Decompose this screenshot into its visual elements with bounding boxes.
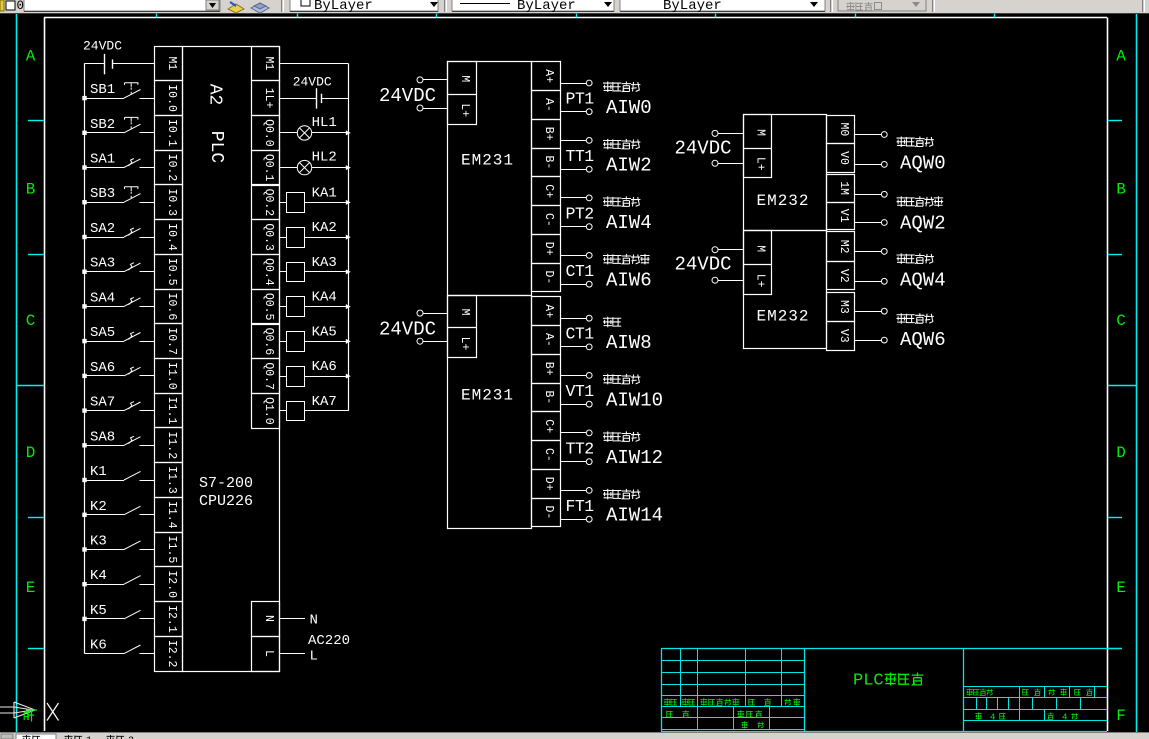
wire L stub xyxy=(279,653,305,655)
left supply rail wire xyxy=(84,63,86,653)
svg-text:L+: L+ xyxy=(458,337,471,351)
lamp HL2 xyxy=(279,160,348,174)
EM232 U5 L+ supply wire and terminal circle xyxy=(712,277,743,283)
svg-text:K4: K4 xyxy=(90,568,107,584)
svg-text:I0.5: I0.5 xyxy=(165,258,178,286)
svg-text:EM231: EM231 xyxy=(461,386,514,404)
svg-text:I0.0: I0.0 xyxy=(165,84,178,112)
title block main title PLC接线图 xyxy=(853,672,923,691)
svg-text:KA2: KA2 xyxy=(312,220,337,236)
chinese label for AIW4 xyxy=(603,196,612,207)
junction dot KA6 rail xyxy=(346,374,351,379)
EM231 U3 wire A+ to sensor xyxy=(560,315,592,321)
svg-text:C+: C+ xyxy=(542,184,555,198)
svg-text:KA6: KA6 xyxy=(312,359,337,375)
EM231 U3 wire A- to sensor xyxy=(560,344,592,350)
svg-text:B: B xyxy=(1116,181,1126,199)
EM231 U2 terminal D- cell xyxy=(532,264,561,292)
svg-text:M: M xyxy=(458,309,471,316)
svg-text:CT1: CT1 xyxy=(566,325,595,344)
EM231 U3 terminal D- cell xyxy=(532,499,561,527)
svg-text:E: E xyxy=(1116,579,1126,597)
EM231 U2 wire D- to sensor xyxy=(560,281,592,287)
svg-text:B-: B- xyxy=(542,390,555,404)
svg-text:A2: A2 xyxy=(205,84,225,106)
chinese label for AIW12 xyxy=(603,431,612,442)
svg-text:SA4: SA4 xyxy=(90,290,115,306)
EM232 U5 terminal M3 cell xyxy=(827,293,855,322)
switch SA7 xyxy=(85,402,155,411)
svg-text:M2: M2 xyxy=(837,240,850,254)
svg-text:PT1: PT1 xyxy=(566,89,595,108)
junction dot xyxy=(82,374,86,378)
EM231 U3 terminal C- cell xyxy=(532,441,561,470)
svg-text:B: B xyxy=(26,181,36,199)
title block row 设计 标准化 xyxy=(667,710,762,718)
svg-text:I0.7: I0.7 xyxy=(165,327,178,355)
EM232 U5 output wire 0 xyxy=(855,249,888,255)
svg-text:AIW2: AIW2 xyxy=(606,154,652,176)
svg-text:24VDC: 24VDC xyxy=(83,39,122,54)
svg-text:AIW4: AIW4 xyxy=(606,212,652,234)
terminal I1.3 PLC input cell xyxy=(155,463,183,498)
svg-text:SA6: SA6 xyxy=(90,360,115,376)
junction dot xyxy=(82,270,86,274)
svg-text:K3: K3 xyxy=(90,534,107,550)
relay coil KA3 xyxy=(279,263,348,282)
EM231 U2 M supply wire and terminal circle xyxy=(417,77,448,83)
EM231 U3 terminal A- cell xyxy=(532,326,561,355)
svg-text:SA3: SA3 xyxy=(90,256,115,272)
EM231 U3 wire C- to sensor xyxy=(560,459,592,465)
toolbar separator xyxy=(830,0,832,12)
svg-text:L+: L+ xyxy=(753,157,766,171)
EM232 U4 output wire 3 xyxy=(855,220,888,226)
EM231 U2 wire C- to sensor xyxy=(560,224,592,230)
svg-text:SA5: SA5 xyxy=(90,325,115,341)
terminal I1.2 PLC input cell xyxy=(155,428,183,463)
wire N stub xyxy=(279,618,305,620)
junction dot xyxy=(82,617,86,621)
chinese label for AQW4 xyxy=(897,253,906,264)
EM231 U2 terminal C+ cell xyxy=(532,177,561,206)
EM231 U3 wire D+ to sensor xyxy=(560,488,592,494)
svg-text:I1.2: I1.2 xyxy=(165,432,178,460)
terminal I2.1 PLC input cell xyxy=(155,602,183,637)
terminal I2.2 PLC input cell xyxy=(155,637,183,672)
svg-text:CPU226: CPU226 xyxy=(199,493,253,510)
EM231 U2 terminal A+ cell xyxy=(532,62,561,91)
title block right table lines xyxy=(963,687,1107,721)
svg-text:V3: V3 xyxy=(837,329,850,343)
EM232 U5 output wire 1 xyxy=(855,278,888,284)
relay coil KA7 xyxy=(279,402,348,421)
junction dot xyxy=(82,200,86,204)
svg-text:E: E xyxy=(26,579,36,597)
terminal N PLC cell xyxy=(252,602,280,637)
svg-text:L: L xyxy=(310,649,318,665)
svg-text:V1: V1 xyxy=(837,209,850,223)
terminal Q0.7 PLC output cell xyxy=(252,359,280,394)
svg-text:A-: A- xyxy=(542,98,555,112)
svg-text:HL1: HL1 xyxy=(312,115,337,131)
svg-text:C+: C+ xyxy=(542,419,555,433)
top zone ticks cyan xyxy=(157,14,995,18)
svg-text:B+: B+ xyxy=(542,362,555,376)
EM231 U3 terminal A+ cell xyxy=(532,297,561,326)
svg-text:I0.3: I0.3 xyxy=(165,188,178,216)
svg-text:M: M xyxy=(753,129,766,136)
svg-text:Q1.0: Q1.0 xyxy=(262,397,275,425)
wire M1 to rail xyxy=(279,63,348,65)
EM231 U2 wire D+ to sensor xyxy=(560,253,592,259)
relay coil KA1 xyxy=(279,193,348,213)
toolbar strip background xyxy=(0,0,1149,14)
svg-text:A: A xyxy=(1116,48,1126,66)
svg-text:M: M xyxy=(753,245,766,252)
svg-text:D+: D+ xyxy=(542,477,555,491)
EM231 U3 wire C+ to sensor xyxy=(560,430,592,436)
toolbar color combo (ByLayer) xyxy=(290,0,438,14)
switch SB1 xyxy=(85,83,155,99)
svg-text:M: M xyxy=(458,75,471,82)
svg-text:D+: D+ xyxy=(542,242,555,256)
svg-text:K5: K5 xyxy=(90,603,107,619)
chinese label for AQW2 xyxy=(897,196,906,207)
switch K1 xyxy=(85,471,155,480)
junction dot KA3 rail xyxy=(346,269,351,274)
svg-text:C: C xyxy=(26,312,36,330)
svg-text:AQW2: AQW2 xyxy=(900,212,946,234)
EM231 U2 L+ supply wire and terminal circle xyxy=(417,105,448,111)
toolbar separator xyxy=(444,0,446,12)
analog output module EM232 U4 body xyxy=(744,115,827,231)
junction dot xyxy=(82,131,86,135)
junction dot xyxy=(82,304,86,308)
relay coil KA4 xyxy=(279,297,348,317)
chinese label for AIW14 xyxy=(603,489,612,500)
battery B1 24VDC left xyxy=(85,54,155,74)
switch SA1 xyxy=(85,159,155,168)
terminal I0.2 PLC input cell xyxy=(155,151,183,185)
terminal 1L+ PLC output cell xyxy=(252,81,280,116)
junction dot KA2 rail xyxy=(346,235,351,240)
svg-text:ByLayer: ByLayer xyxy=(663,0,722,14)
svg-text:24VDC: 24VDC xyxy=(293,75,332,90)
svg-text:M3: M3 xyxy=(837,300,850,314)
svg-text:K6: K6 xyxy=(90,638,107,654)
svg-text:4: 4 xyxy=(990,713,995,723)
svg-text:I2.0: I2.0 xyxy=(165,570,178,598)
chinese label for AIW6 xyxy=(603,254,612,265)
crosshair cursor X xyxy=(47,703,59,721)
svg-text:CT1: CT1 xyxy=(566,262,595,281)
svg-text:C-: C- xyxy=(542,213,555,227)
junction dot HL2 rail xyxy=(346,165,351,170)
svg-text:F: F xyxy=(23,710,30,724)
EM231 U3 M L+ terminal cells xyxy=(448,296,477,358)
svg-text:Q0.2: Q0.2 xyxy=(262,189,275,217)
svg-text:Q0.4: Q0.4 xyxy=(262,258,275,286)
terminal I1.1 PLC input cell xyxy=(155,394,183,428)
svg-text:0: 0 xyxy=(17,0,25,13)
svg-text:D-: D- xyxy=(542,505,555,519)
terminal Q0.1 PLC output cell xyxy=(252,151,280,185)
svg-text:Q0.1: Q0.1 xyxy=(262,154,275,182)
EM232 U5 terminal V3 cell xyxy=(827,322,855,351)
svg-text:S7-200: S7-200 xyxy=(199,475,253,492)
terminal Q0.0 PLC output cell xyxy=(252,116,280,151)
EM231 U3 L+ supply wire and terminal circle xyxy=(417,338,448,344)
toolbar icon: layers (blue diamond) xyxy=(251,3,269,13)
svg-text:I1.1: I1.1 xyxy=(165,397,178,425)
EM232 U4 terminal V1 cell xyxy=(827,203,855,230)
switch K4 xyxy=(85,576,155,585)
svg-text:B-: B- xyxy=(542,155,555,169)
right return rail wire xyxy=(348,63,350,411)
right zone ticks cyan xyxy=(1108,121,1122,649)
EM231 U3 wire D- to sensor xyxy=(560,516,592,522)
svg-text:KA7: KA7 xyxy=(312,394,337,410)
title block outer border xyxy=(661,649,1122,732)
terminal Q0.2 PLC output cell xyxy=(252,186,280,220)
title block sheet row 共4张 第4张 xyxy=(975,713,1077,723)
toolbar icon: make layer current (yellow) xyxy=(228,2,244,13)
toolbar linetype combo (ByLayer) xyxy=(452,0,614,14)
EM231 U3 terminal C+ cell xyxy=(532,412,561,441)
switch SA4 xyxy=(85,297,155,306)
UCS icon green axis cross xyxy=(26,710,37,722)
battery B2 24VDC right xyxy=(279,88,348,108)
toolbar lineweight combo (ByLayer) xyxy=(620,0,825,14)
svg-text:SA8: SA8 xyxy=(90,429,115,445)
EM232 U4 output wire 1 xyxy=(855,162,888,168)
UCS icon arrow xyxy=(0,702,35,718)
svg-text:Q0.6: Q0.6 xyxy=(262,328,275,356)
EM232 U5 output wire 2 xyxy=(855,308,888,314)
svg-text:TT2: TT2 xyxy=(566,439,594,458)
terminal M1 PLC output cell xyxy=(252,47,280,81)
relay coil KA5 xyxy=(279,332,348,352)
svg-text:F: F xyxy=(1116,707,1126,725)
toolbar layer button icon (partial) xyxy=(0,0,15,11)
tab 布局1 xyxy=(64,735,92,739)
tab 布局2 xyxy=(106,735,134,739)
EM232 U4 terminal V0 cell xyxy=(827,144,855,173)
svg-text:SB3: SB3 xyxy=(90,186,115,202)
svg-text:PT2: PT2 xyxy=(566,204,594,223)
svg-text:M1: M1 xyxy=(165,56,178,70)
terminal I0.4 PLC input cell xyxy=(155,220,183,255)
EM231 U2 terminal C- cell xyxy=(532,206,561,235)
analog output module EM232 U5 body xyxy=(744,231,827,349)
switch K6 xyxy=(85,645,155,654)
svg-text:AIW0: AIW0 xyxy=(606,97,652,119)
svg-text:SB1: SB1 xyxy=(90,82,115,98)
EM232 U5 terminal M2 cell xyxy=(827,232,855,262)
junction dot xyxy=(82,339,86,343)
EM232 U5 M supply wire and terminal circle xyxy=(712,247,743,253)
junction dot xyxy=(82,582,86,586)
svg-text:I0.1: I0.1 xyxy=(165,119,178,147)
EM231 U2 wire B- to sensor xyxy=(560,166,592,172)
EM231 U3 wire B- to sensor xyxy=(560,401,592,407)
terminal I0.3 PLC input cell xyxy=(155,185,183,220)
svg-text:V2: V2 xyxy=(837,269,850,283)
svg-text:A+: A+ xyxy=(542,69,555,83)
svg-text:A+: A+ xyxy=(542,304,555,318)
EM232 U4 M supply wire and terminal circle xyxy=(712,130,743,136)
terminal Q0.3 PLC output cell xyxy=(252,220,280,255)
switch K5 xyxy=(85,610,155,619)
svg-text:24VDC: 24VDC xyxy=(379,319,436,341)
junction dot xyxy=(82,96,86,100)
terminal L PLC cell xyxy=(252,637,280,672)
svg-text:1M: 1M xyxy=(837,181,850,195)
terminal I0.6 PLC input cell xyxy=(155,290,183,324)
switch SA8 xyxy=(85,436,155,445)
switch SB3 xyxy=(85,187,155,203)
svg-text:B+: B+ xyxy=(542,127,555,141)
toolbar separator xyxy=(281,0,283,12)
toolbar separator right xyxy=(932,0,934,12)
junction dot xyxy=(82,165,86,169)
svg-text:AC220: AC220 xyxy=(308,633,350,649)
EM231 U2 terminal D+ cell xyxy=(532,235,561,264)
switch SA5 xyxy=(85,332,155,341)
switch SA3 xyxy=(85,263,155,272)
analog input module EM231 U2 body xyxy=(448,62,532,296)
svg-text:I0.4: I0.4 xyxy=(165,223,178,251)
svg-text:AQW4: AQW4 xyxy=(900,269,946,291)
outer paper border cyan left xyxy=(16,14,18,733)
junction dot xyxy=(82,478,86,482)
left middle zone tick full xyxy=(16,385,44,387)
svg-text:Q0.0: Q0.0 xyxy=(262,119,275,147)
lamp HL1 xyxy=(279,126,348,140)
junction dot xyxy=(82,513,86,517)
EM232 U4 M L+ terminal cells xyxy=(743,115,772,178)
svg-text:1L+: 1L+ xyxy=(262,88,275,109)
EM232 U4 L+ supply wire and terminal circle xyxy=(712,160,743,166)
svg-text:EM231: EM231 xyxy=(461,151,514,169)
terminal I0.1 PLC input cell xyxy=(155,116,183,151)
EM231 U2 M L+ terminal cells xyxy=(448,62,477,125)
svg-text:I1.5: I1.5 xyxy=(165,536,178,564)
svg-text:24VDC: 24VDC xyxy=(675,254,732,276)
junction dot xyxy=(82,408,86,412)
EM232 U5 terminal V2 cell xyxy=(827,262,855,290)
switch K2 xyxy=(85,506,155,515)
svg-text:N: N xyxy=(310,613,318,629)
chinese label for AIW2 xyxy=(603,139,612,150)
svg-text:V0: V0 xyxy=(837,151,850,165)
terminal I0.0 PLC input cell xyxy=(155,81,183,116)
svg-text:L+: L+ xyxy=(458,103,471,117)
EM232 U5 output wire 3 xyxy=(855,337,888,343)
svg-text:I0.6: I0.6 xyxy=(165,293,178,321)
EM231 U3 wire B+ to sensor xyxy=(560,373,592,379)
EM231 U3 terminal D+ cell xyxy=(532,470,561,499)
svg-text:M0: M0 xyxy=(837,122,850,136)
switch SB2 xyxy=(85,117,155,132)
svg-text:EM232: EM232 xyxy=(757,307,810,325)
EM232 U4 output wire 2 xyxy=(855,191,888,197)
terminal I1.0 PLC input cell xyxy=(155,359,183,394)
svg-text:SA2: SA2 xyxy=(90,221,115,237)
svg-text:D-: D- xyxy=(542,270,555,284)
svg-text:M1: M1 xyxy=(262,56,275,70)
EM231 U3 M supply wire and terminal circle xyxy=(417,310,448,316)
switch K3 xyxy=(85,541,155,550)
svg-text:SB2: SB2 xyxy=(90,117,115,133)
terminal I1.5 PLC input cell xyxy=(155,533,183,567)
svg-text:D: D xyxy=(1116,444,1126,462)
terminal I1.4 PLC input cell xyxy=(155,498,183,533)
junction dot xyxy=(82,547,86,551)
EM231 U2 wire B+ to sensor xyxy=(560,138,592,144)
junction dot KA5 rail xyxy=(346,339,351,344)
svg-text:4: 4 xyxy=(1062,713,1067,723)
outer paper border cyan right xyxy=(1136,14,1138,733)
svg-text:FT1: FT1 xyxy=(566,497,595,516)
EM231 U3 terminal B+ cell xyxy=(532,355,561,384)
PLC U1 body outline A2 S7-200 CPU226 xyxy=(183,47,280,672)
svg-text:EM232: EM232 xyxy=(757,192,810,210)
title block right header 图样标记 数量 重量 比例 xyxy=(966,689,1092,696)
tab icons left xyxy=(1,734,13,739)
svg-text:AIW10: AIW10 xyxy=(606,389,663,411)
svg-text:A: A xyxy=(26,48,36,66)
terminal Q1.0 PLC output cell xyxy=(252,394,280,429)
junction dot HL1 rail xyxy=(346,130,351,135)
EM232 U4 terminal 1M cell xyxy=(827,175,855,203)
left zone ticks cyan xyxy=(28,121,44,649)
svg-text:VT1: VT1 xyxy=(566,382,595,401)
svg-text:TT1: TT1 xyxy=(566,147,595,166)
relay coil KA6 xyxy=(279,367,348,387)
svg-text:AIW12: AIW12 xyxy=(606,447,663,469)
terminal I0.5 PLC input cell xyxy=(155,255,183,290)
svg-text:KA4: KA4 xyxy=(312,290,337,306)
toolbar layer dropdown box xyxy=(24,0,220,12)
svg-text:L+: L+ xyxy=(753,274,766,288)
terminal Q0.5 PLC output cell xyxy=(252,290,280,324)
EM232 U4 terminal M0 cell xyxy=(827,116,855,144)
svg-text:24VDC: 24VDC xyxy=(379,85,436,107)
svg-text:AIW14: AIW14 xyxy=(606,504,663,526)
model layout tab strip xyxy=(0,733,1149,739)
terminal M1 PLC input cell xyxy=(155,47,183,81)
junction dot xyxy=(82,443,86,447)
svg-text:SA7: SA7 xyxy=(90,395,115,411)
svg-text:ByLayer: ByLayer xyxy=(517,0,576,14)
title block row 批准 xyxy=(741,721,763,728)
chinese label for AQW6 xyxy=(897,313,906,324)
terminal I2.0 PLC input cell xyxy=(155,567,183,602)
toolbar plot style combo (disabled) xyxy=(838,0,926,11)
svg-text:K2: K2 xyxy=(90,499,107,515)
EM231 U2 terminal A- cell xyxy=(532,91,561,120)
svg-text:AIW6: AIW6 xyxy=(606,269,652,291)
title block header row text 标记 处数 更改文件号 签字 日期 xyxy=(664,698,800,706)
svg-text:I2.1: I2.1 xyxy=(165,605,178,633)
svg-text:Q0.5: Q0.5 xyxy=(262,293,275,321)
junction dot KA4 rail xyxy=(346,304,351,309)
terminal Q0.4 PLC output cell xyxy=(252,255,280,290)
switch SA2 xyxy=(85,228,155,238)
right middle zone tick full xyxy=(1108,385,1136,387)
